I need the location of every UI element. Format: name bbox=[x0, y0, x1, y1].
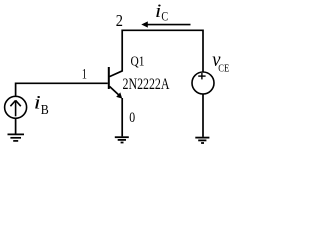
svg-text:2: 2 bbox=[116, 11, 123, 30]
svg-text:B: B bbox=[41, 103, 49, 118]
svg-text:0: 0 bbox=[129, 110, 135, 126]
svg-text:Q1: Q1 bbox=[131, 53, 145, 68]
svg-text:i: i bbox=[155, 1, 161, 22]
svg-text:C: C bbox=[161, 9, 168, 24]
svg-text:2N2222A: 2N2222A bbox=[123, 76, 170, 93]
svg-text:CE: CE bbox=[218, 62, 229, 74]
svg-text:1: 1 bbox=[82, 66, 87, 82]
